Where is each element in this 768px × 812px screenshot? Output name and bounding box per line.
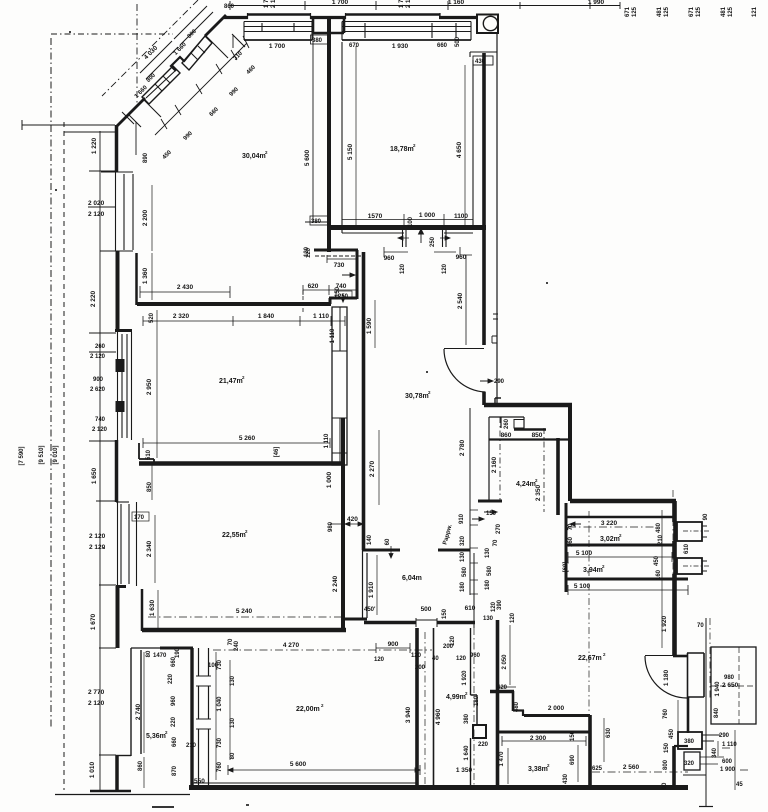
svg-text:980: 980	[328, 521, 334, 532]
room 21.47 bottom wall / 22.55 top	[139, 461, 345, 466]
svg-text:130: 130	[483, 616, 494, 622]
arrow 910	[472, 517, 484, 521]
svg-text:500: 500	[421, 606, 432, 613]
entrance door jambs	[673, 655, 688, 658]
svg-text:980: 980	[724, 675, 735, 681]
svg-text:5,36m: 5,36m	[146, 733, 166, 740]
svg-text:800: 800	[663, 759, 669, 770]
svg-text:260: 260	[95, 344, 106, 350]
svg-text:580: 580	[487, 565, 493, 576]
svg-text:2 540: 2 540	[457, 292, 464, 309]
svg-text:760: 760	[663, 708, 669, 719]
svg-text:320: 320	[460, 535, 466, 546]
svg-text:630: 630	[606, 727, 612, 738]
svg-text:2 300: 2 300	[530, 735, 547, 742]
window room 18.78	[342, 22, 471, 41]
jog below room 30.04	[314, 249, 358, 252]
svg-text:125: 125	[632, 6, 638, 17]
svg-text:670: 670	[349, 43, 360, 49]
svg-text:1 470: 1 470	[499, 751, 505, 767]
east block rooms 4.24 / 3.02 / 3.94	[478, 405, 710, 714]
svg-text:80: 80	[146, 650, 152, 657]
svg-text:760: 760	[217, 761, 223, 772]
solid pier (y251-331)	[116, 251, 120, 331]
svg-text:2 350: 2 350	[535, 484, 542, 501]
east stub (Pappwand)	[438, 549, 470, 552]
2560 dashdot	[592, 771, 688, 773]
svg-text:1 360: 1 360	[142, 267, 149, 284]
hall west wall	[362, 252, 366, 550]
svg-text:1 840: 1 840	[258, 313, 275, 320]
niche inner face	[139, 443, 154, 464]
svg-text:2 050: 2 050	[502, 654, 508, 670]
svg-text:580: 580	[462, 566, 468, 577]
room 22.55 bottom wall	[142, 628, 346, 633]
corridor to SE wing wall	[484, 403, 572, 408]
wall below entrance	[687, 697, 690, 733]
svg-text:140: 140	[367, 534, 373, 545]
east wall lower	[672, 746, 676, 785]
svg-text:850: 850	[532, 432, 543, 439]
dim 5240 dash line	[148, 616, 345, 618]
svg-text:2 270: 2 270	[369, 460, 376, 477]
outer sill band NW	[174, 6, 213, 45]
east block labels	[485, 418, 709, 632]
svg-text:150: 150	[570, 730, 576, 741]
right wall of 21.47/22.55	[341, 418, 345, 630]
2000 dim	[524, 715, 590, 717]
svg-text:100: 100	[408, 216, 414, 227]
door jambs down to hall	[403, 230, 447, 247]
diagonal wall face: thick pier segments	[205, 15, 226, 36]
svg-text:121: 121	[752, 6, 758, 17]
svg-text:130: 130	[230, 675, 236, 686]
svg-text:4 960: 4 960	[435, 708, 442, 725]
vertical extension at bay top	[136, 4, 138, 105]
svg-text:21,47m: 21,47m	[219, 378, 243, 385]
svg-text:45: 45	[736, 782, 743, 788]
svg-text:2 020: 2 020	[88, 200, 105, 207]
svg-text:481: 481	[657, 6, 663, 17]
dim 5260	[143, 438, 330, 448]
svg-text:390: 390	[497, 599, 503, 610]
svg-text:180: 180	[474, 695, 480, 706]
svg-text:2 120: 2 120	[89, 533, 106, 540]
svg-text:625: 625	[592, 766, 603, 772]
bottom rooms 5.36 / 22.00 / 4.99 / 3.38	[131, 620, 688, 788]
window band B	[142, 66, 180, 104]
dim lines 2050/420	[496, 625, 516, 687]
svg-text:250: 250	[430, 236, 436, 247]
svg-text:2 125: 2 125	[271, 0, 277, 8]
room 4.99 east side	[471, 628, 478, 788]
svg-text:1 110: 1 110	[324, 433, 330, 448]
svg-text:671: 671	[625, 6, 631, 17]
svg-text:1 000: 1 000	[419, 212, 436, 219]
top horiz dash line	[51, 33, 173, 35]
svg-text:1100: 1100	[454, 213, 468, 220]
main vertical dim chain	[99, 131, 101, 790]
4270 dash dim	[213, 649, 432, 651]
rooms 3.02 / 3.94 band	[565, 503, 568, 592]
svg-text:730: 730	[217, 737, 223, 748]
SE stepped wall (west of 22.67)	[496, 620, 500, 692]
svg-text:1 160: 1 160	[448, 0, 465, 6]
dashed interior dims 4.24	[500, 417, 544, 512]
svg-text:480: 480	[514, 701, 520, 712]
wall below bay corner	[115, 125, 119, 172]
1920 dim	[661, 510, 663, 648]
svg-text:3 220: 3 220	[601, 520, 618, 527]
svg-text:690: 690	[570, 754, 576, 765]
dashdot vertical right	[672, 490, 674, 600]
svg-text:960: 960	[384, 255, 395, 262]
svg-text:130: 130	[230, 717, 236, 728]
svg-text:2 780: 2 780	[459, 439, 466, 456]
bottom pier hatch (450)	[143, 99, 161, 117]
partition 5.36/22.00 with two doors	[198, 648, 200, 788]
svg-text:190: 190	[175, 647, 181, 658]
svg-text:2 650: 2 650	[722, 682, 739, 689]
middle rooms dimension labels	[88, 137, 358, 778]
dim 2540	[460, 255, 472, 345]
svg-text:120: 120	[510, 612, 516, 623]
entry boxes bottom right	[678, 732, 702, 749]
hall 30.78 and corridor 6.04	[345, 236, 572, 628]
dim line to wall top	[22, 120, 115, 132]
svg-text:2 120: 2 120	[92, 427, 108, 433]
svg-text:70: 70	[697, 623, 704, 629]
svg-text:30,78m: 30,78m	[405, 393, 429, 400]
svg-text:2 740: 2 740	[135, 703, 142, 720]
22.67 top wall	[570, 499, 676, 504]
svg-text:160: 160	[656, 569, 662, 580]
rooms 30.04 / 18.78 labels	[242, 35, 486, 258]
svg-text:22,55m: 22,55m	[222, 532, 246, 539]
svg-text:120: 120	[400, 263, 406, 274]
stub small dims	[389, 546, 393, 558]
svg-text:3,02m: 3,02m	[600, 536, 620, 543]
dim row 2320/1840/1110	[143, 316, 345, 326]
svg-text:380: 380	[312, 38, 323, 44]
22.67 bottom-left wall	[524, 714, 590, 717]
svg-text:[7 590]: [7 590]	[19, 446, 25, 465]
svg-text:3,38m: 3,38m	[528, 766, 548, 773]
svg-text:1 900: 1 900	[720, 767, 736, 773]
svg-text:870: 870	[172, 765, 178, 776]
corner pier (y586-648)	[116, 586, 120, 648]
svg-text:1 754: 1 754	[399, 0, 405, 8]
svg-text:1 930: 1 930	[392, 43, 409, 50]
svg-text:120: 120	[374, 657, 385, 663]
hall labels	[364, 254, 516, 623]
inner face room 22.55 SW corner	[141, 589, 144, 631]
svg-text:610: 610	[684, 543, 690, 554]
svg-text:60: 60	[385, 538, 391, 545]
window room 30.04	[244, 22, 312, 41]
top exterior wall with windows and column	[224, 1, 620, 40]
arrow at 3.02 left	[570, 522, 581, 526]
svg-text:22,00m: 22,00m	[296, 706, 320, 713]
svg-text:125: 125	[664, 6, 670, 17]
svg-text:1 000: 1 000	[326, 471, 333, 488]
dim ticks east column	[470, 510, 478, 594]
svg-text:2 120: 2 120	[88, 700, 105, 707]
long outer vertical line	[705, 618, 707, 807]
svg-text:481: 481	[721, 6, 727, 17]
bottom dim row of 18.78	[342, 214, 473, 225]
svg-text:890: 890	[143, 152, 149, 163]
svg-text:2 620: 2 620	[90, 387, 106, 393]
entrance door frame in stair wall	[687, 653, 704, 697]
svg-text:[46]: [46]	[274, 447, 280, 458]
svg-text:1570: 1570	[368, 213, 383, 220]
svg-text:4 270: 4 270	[283, 642, 300, 649]
svg-text:30,04m: 30,04m	[242, 153, 266, 160]
svg-text:840: 840	[714, 707, 720, 718]
svg-text:610: 610	[465, 605, 476, 612]
svg-text:420: 420	[347, 516, 358, 523]
svg-text:600: 600	[722, 759, 733, 765]
svg-text:18,78m: 18,78m	[390, 146, 414, 153]
svg-text:210: 210	[658, 534, 664, 545]
22.67 east wall upper	[673, 501, 677, 656]
svg-text:1 670: 1 670	[90, 613, 97, 630]
corridor east faces	[470, 408, 474, 620]
svg-text:22,67m: 22,67m	[578, 655, 602, 662]
corner into corridor bottom	[345, 618, 367, 621]
bottom wall upper face left part	[192, 782, 417, 784]
svg-text:3,94m: 3,94m	[583, 567, 603, 574]
dims around 3.38	[603, 718, 605, 762]
svg-text:80: 80	[230, 752, 236, 759]
svg-text:860: 860	[501, 432, 512, 439]
svg-text:380: 380	[464, 713, 470, 724]
svg-text:1 010: 1 010	[89, 761, 96, 778]
svg-text:260: 260	[504, 418, 510, 429]
svg-text:960: 960	[456, 254, 467, 261]
svg-text:90: 90	[662, 782, 668, 789]
dashdot guide line far left	[50, 38, 52, 728]
bottom rooms labels	[146, 635, 668, 789]
900 dim	[376, 643, 410, 653]
scan specks	[55, 31, 548, 806]
svg-text:380: 380	[684, 739, 695, 745]
svg-text:420: 420	[497, 685, 508, 691]
entrance labels	[663, 623, 743, 788]
svg-text:660: 660	[171, 656, 177, 667]
svg-text:4,24m: 4,24m	[516, 481, 536, 488]
svg-text:450: 450	[654, 555, 660, 566]
arrow 290	[480, 379, 493, 383]
svg-text:550: 550	[194, 778, 205, 785]
dim 5150 / 4650 lines	[355, 46, 357, 228]
window band 3 (y502-585)	[118, 502, 137, 586]
NW dimension diagonal (4 030)	[102, 0, 198, 96]
svg-text:150: 150	[664, 742, 670, 753]
svg-text:150: 150	[335, 286, 341, 297]
svg-text:125: 125	[696, 6, 702, 17]
svg-text:1 640: 1 640	[464, 745, 470, 761]
svg-text:1 040: 1 040	[217, 696, 223, 712]
left exterior wall with window bands	[55, 125, 190, 807]
svg-text:2 200: 2 200	[142, 209, 149, 226]
svg-text:450: 450	[669, 728, 675, 739]
svg-text:5 600: 5 600	[304, 149, 311, 166]
svg-text:[9 010]: [9 010]	[53, 445, 59, 464]
svg-text:450': 450'	[364, 607, 376, 613]
svg-text:660: 660	[437, 43, 448, 49]
svg-text:220: 220	[171, 716, 177, 727]
svg-text:70: 70	[493, 539, 499, 546]
door arc 30.78 to east corridor	[444, 348, 484, 350]
svg-text:2 120: 2 120	[88, 211, 105, 218]
svg-text:1 920: 1 920	[462, 670, 468, 686]
arrow	[342, 273, 355, 277]
svg-text:2 240: 2 240	[332, 575, 339, 592]
arrows at hall top door	[398, 236, 450, 240]
svg-text:240: 240	[234, 640, 240, 651]
svg-text:2 120: 2 120	[90, 354, 106, 360]
svg-text:220: 220	[168, 673, 174, 684]
bay dimension labels	[134, 28, 258, 163]
small inner face tick below bay	[135, 122, 137, 155]
svg-text:671: 671	[689, 6, 695, 17]
svg-text:2 220: 2 220	[90, 290, 97, 307]
svg-text:220: 220	[478, 742, 489, 748]
svg-text:2 560: 2 560	[623, 764, 640, 771]
svg-text:5 260: 5 260	[239, 435, 256, 442]
svg-text:2 000: 2 000	[548, 705, 565, 712]
window band A	[182, 36, 212, 70]
svg-text:900: 900	[388, 641, 399, 648]
svg-text:430: 430	[475, 59, 486, 65]
svg-text:130: 130	[460, 551, 466, 562]
svg-text:380: 380	[311, 219, 322, 225]
inner face to room 21.47 top	[135, 253, 138, 305]
svg-text:2 320: 2 320	[173, 313, 190, 320]
svg-text:1 650: 1 650	[91, 467, 98, 484]
svg-text:2 430: 2 430	[177, 284, 194, 291]
dim 2430	[140, 286, 230, 298]
svg-text:200: 200	[415, 665, 426, 671]
svg-text:170: 170	[134, 515, 145, 521]
door box upper	[677, 522, 702, 541]
svg-text:130: 130	[485, 547, 491, 558]
dashed guide line	[63, 122, 65, 790]
svg-text:1 920: 1 920	[661, 615, 668, 632]
dim 150 arrow	[484, 510, 497, 514]
west wall lower thin faces	[363, 550, 368, 620]
svg-text:125: 125	[728, 6, 734, 17]
svg-text:4,99m: 4,99m	[446, 694, 466, 701]
inner west face of 18.78	[342, 42, 473, 233]
room 21.47 top wall	[137, 302, 331, 306]
svg-text:40: 40	[432, 656, 439, 662]
svg-text:2 950: 2 950	[146, 378, 153, 395]
left dimension strip	[22, 34, 173, 790]
svg-text:430: 430	[563, 773, 569, 784]
right exterior wall of 18.78 / corridor	[482, 53, 486, 345]
room 5.36 north wall	[131, 647, 160, 649]
22.67 west-right wall with door boxes	[672, 501, 676, 655]
svg-text:500: 500	[455, 36, 461, 47]
svg-text:1 110: 1 110	[330, 328, 336, 343]
top dimension labels	[224, 0, 758, 17]
svg-text:120: 120	[411, 653, 422, 659]
column circle at top right	[477, 15, 498, 34]
room 5.36 west wall (double face)	[131, 648, 141, 756]
svg-text:150: 150	[486, 511, 497, 517]
svg-text:2 770: 2 770	[88, 689, 105, 696]
dim 760 line	[677, 700, 679, 744]
main bottom wall	[189, 785, 688, 790]
svg-text:960: 960	[171, 695, 177, 706]
arrow 150 down	[341, 294, 345, 302]
svg-text:270: 270	[496, 523, 502, 534]
top dimension line	[230, 5, 620, 7]
svg-text:120: 120	[450, 635, 456, 646]
svg-text:1470: 1470	[153, 653, 167, 659]
bottom wall of 18.78	[329, 225, 486, 230]
svg-text:6,04m: 6,04m	[402, 575, 422, 582]
room 5.36 east wall	[190, 648, 193, 788]
svg-text:90: 90	[703, 513, 709, 520]
solid pier (y441-502)	[115, 440, 119, 502]
svg-text:730: 730	[217, 659, 223, 670]
svg-text:860: 860	[224, 4, 235, 10]
svg-text:5 240: 5 240	[236, 608, 253, 615]
svg-text:910: 910	[459, 513, 465, 524]
svg-text:1 910: 1 910	[368, 581, 375, 598]
svg-text:1 990: 1 990	[588, 0, 605, 6]
rooms 21.47 / 22.55 walls and chimney shaft	[137, 185, 363, 788]
diagonal bay wall with windows	[102, 0, 249, 155]
svg-text:180: 180	[460, 581, 466, 592]
svg-text:1 751: 1 751	[264, 0, 270, 8]
svg-text:1 940: 1 940	[715, 681, 721, 697]
room 22.67 entrance and stair landing	[645, 501, 756, 807]
thin wall line across window spans	[146, 36, 205, 98]
inner dim chains left rooms	[144, 185, 158, 788]
svg-text:2 340: 2 340	[146, 540, 153, 557]
dim 5600 line	[312, 28, 314, 222]
svg-text:150: 150	[442, 608, 448, 619]
chimney shaft	[332, 307, 347, 465]
top exterior wall with sill jogs	[224, 16, 248, 19]
dim 730	[327, 255, 356, 263]
svg-text:850: 850	[147, 481, 153, 492]
room 4.24 block east outer wall	[568, 405, 572, 501]
svg-text:510: 510	[146, 449, 152, 460]
svg-text:120: 120	[442, 263, 448, 274]
door arc into 22.67	[645, 656, 687, 698]
svg-text:320: 320	[684, 761, 695, 767]
svg-text:70: 70	[568, 523, 574, 530]
dim row 620/740	[303, 285, 357, 295]
svg-text:660: 660	[172, 736, 178, 747]
svg-text:730: 730	[334, 262, 345, 269]
svg-text:2 125: 2 125	[406, 0, 412, 8]
lower pier to plinth	[115, 755, 119, 791]
svg-text:1 110: 1 110	[313, 313, 329, 320]
svg-text:1 630: 1 630	[149, 599, 156, 616]
bottom plinth lines	[90, 790, 131, 793]
svg-text:1 700: 1 700	[332, 0, 349, 6]
svg-text:1 350: 1 350	[456, 767, 473, 774]
stair landing rectangle	[711, 647, 756, 724]
svg-text:4 650: 4 650	[456, 141, 463, 158]
